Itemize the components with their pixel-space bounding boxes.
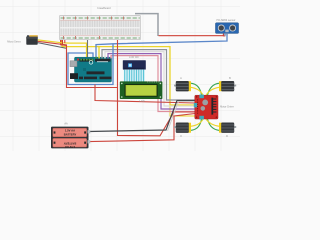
svg-text:breadboard: breadboard <box>97 6 111 10</box>
wire pink bundle <box>111 56 195 112</box>
ribbon cyan <box>124 70 145 82</box>
wire black battery to driver <box>89 101 196 132</box>
wire red breadboard left <box>61 17 67 46</box>
wire white bundle <box>105 52 195 106</box>
arduino U1 <box>70 57 112 82</box>
node sensor red connection <box>223 34 226 37</box>
wire blue loop around arduino <box>68 44 113 85</box>
label lcd <box>139 100 144 103</box>
svg-text:Motor Driver: Motor Driver <box>220 105 234 108</box>
motor driver <box>194 95 218 120</box>
svg-text:D: D <box>226 135 228 138</box>
battery pack <box>51 127 90 149</box>
svg-text:LCD I2C: LCD I2C <box>129 56 139 59</box>
wire yellow bundle (arduino to driver) <box>62 40 195 105</box>
svg-text:HC-SR04 sensor: HC-SR04 sensor <box>216 19 235 22</box>
wire grey breadboard-arduino <box>87 40 89 57</box>
wire dots on arduino header <box>80 57 111 61</box>
motor TL <box>174 81 191 91</box>
label sensor <box>216 19 235 22</box>
label battery <box>64 122 68 125</box>
wire purple bundle <box>108 54 195 109</box>
wire red servo down under arduino <box>38 41 118 87</box>
svg-text:LCD: LCD <box>139 100 144 103</box>
wire yellow driver lower stub <box>170 105 195 116</box>
svg-text:BATTERY: BATTERY <box>64 132 77 136</box>
motor BL <box>174 123 191 133</box>
svg-text:1.5V AA: 1.5V AA <box>65 129 75 133</box>
motor TR <box>219 81 236 91</box>
wire grey top (breadboard to right) <box>135 14 158 36</box>
wire red to sensor <box>159 33 225 36</box>
label driver <box>220 105 234 108</box>
label breadboard <box>97 6 111 10</box>
wire red breadboard to driver via bottom <box>118 40 196 136</box>
wire yellow servo <box>38 40 87 57</box>
wire grey bundle <box>102 50 195 100</box>
ultrasonic sensor <box>216 23 239 36</box>
svg-text:Micro Servo: Micro Servo <box>7 40 21 43</box>
motor labels <box>180 77 182 80</box>
wire red arduino to driver <box>95 85 195 104</box>
wire white battery pair <box>168 102 196 132</box>
svg-text:1.5V AA: 1.5V AA <box>65 145 75 149</box>
wire red battery to driver <box>89 114 196 142</box>
label servo <box>7 40 21 43</box>
label backpack <box>129 56 139 59</box>
servo <box>26 35 37 45</box>
motor wires green/yellow top <box>191 83 202 96</box>
svg-text:C: C <box>180 135 182 138</box>
wire blue sensor + box around arduino <box>96 33 227 57</box>
lcd display <box>120 81 163 99</box>
breadboard <box>60 15 141 39</box>
lcd backpack <box>123 60 146 69</box>
motor wires green/yellow bottom <box>191 119 202 131</box>
red wire stubs under breadboard <box>63 40 65 44</box>
svg-text:AA: AA <box>64 122 68 125</box>
motor BR <box>219 123 236 133</box>
wire dark servo <box>38 43 66 49</box>
